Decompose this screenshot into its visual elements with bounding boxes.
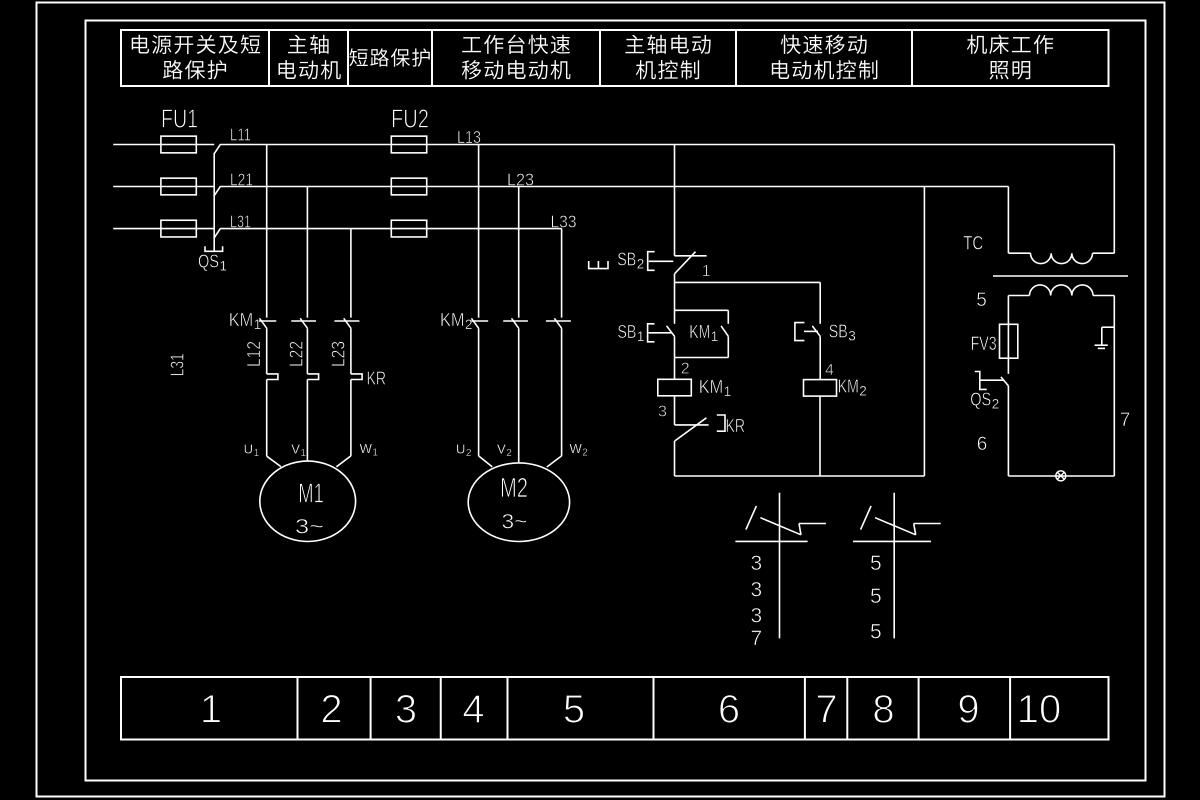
svg-text:2: 2: [320, 688, 342, 732]
svg-text:KR: KR: [726, 415, 746, 436]
svg-text:KM: KM: [699, 376, 724, 397]
svg-text:U: U: [456, 442, 465, 457]
svg-text:2: 2: [506, 448, 512, 459]
svg-text:QS: QS: [198, 251, 219, 272]
svg-text:L23: L23: [329, 341, 349, 367]
svg-text:1: 1: [254, 317, 262, 332]
svg-text:7: 7: [751, 627, 763, 650]
svg-text:U: U: [244, 442, 253, 457]
svg-text:1: 1: [372, 448, 378, 459]
svg-text:V: V: [497, 442, 506, 457]
svg-text:L22: L22: [287, 341, 307, 367]
svg-text:5: 5: [870, 620, 882, 643]
svg-text:KM: KM: [689, 321, 710, 342]
svg-text:SB: SB: [617, 249, 636, 270]
svg-text:6: 6: [977, 434, 988, 455]
svg-text:4: 4: [462, 688, 484, 732]
svg-text:1: 1: [220, 259, 228, 274]
svg-text:L33: L33: [551, 211, 577, 231]
svg-text:2: 2: [637, 257, 645, 272]
svg-text:KM: KM: [838, 376, 859, 397]
svg-text:L23: L23: [507, 169, 534, 189]
svg-text:L13: L13: [457, 127, 481, 147]
svg-text:QS: QS: [970, 389, 991, 410]
svg-text:5: 5: [563, 688, 585, 732]
svg-text:KR: KR: [367, 369, 387, 389]
svg-text:7: 7: [1120, 410, 1131, 431]
svg-text:3: 3: [658, 404, 667, 421]
svg-text:2: 2: [681, 360, 690, 377]
svg-text:3~: 3~: [295, 516, 324, 539]
svg-text:2: 2: [466, 448, 472, 459]
svg-text:2: 2: [465, 317, 473, 332]
svg-text:M2: M2: [500, 472, 528, 503]
svg-text:7: 7: [815, 688, 837, 732]
svg-text:6: 6: [718, 688, 740, 732]
svg-text:FU1: FU1: [161, 104, 198, 134]
svg-text:2: 2: [582, 448, 588, 459]
svg-text:5: 5: [870, 585, 882, 608]
svg-text:2: 2: [992, 397, 1000, 412]
svg-text:FV3: FV3: [971, 334, 997, 355]
svg-text:10: 10: [1017, 688, 1062, 732]
svg-text:1: 1: [254, 448, 260, 459]
svg-text:3: 3: [395, 688, 417, 732]
svg-text:8: 8: [872, 688, 894, 732]
svg-text:1: 1: [637, 329, 645, 344]
svg-text:1: 1: [711, 329, 719, 344]
svg-text:V: V: [291, 442, 300, 457]
svg-text:3~: 3~: [502, 511, 528, 534]
svg-text:1: 1: [724, 384, 732, 399]
svg-text:3: 3: [751, 552, 763, 575]
svg-text:3: 3: [751, 605, 763, 628]
svg-text:3: 3: [751, 579, 763, 602]
svg-text:M1: M1: [298, 477, 324, 508]
svg-text:W: W: [360, 441, 373, 456]
svg-text:5: 5: [870, 552, 882, 575]
svg-text:W: W: [570, 441, 583, 456]
svg-text:2: 2: [859, 384, 867, 399]
svg-text:3: 3: [848, 329, 856, 344]
svg-text:L31: L31: [230, 211, 251, 231]
svg-text:5: 5: [976, 290, 987, 311]
svg-text:TC: TC: [963, 234, 983, 255]
svg-text:9: 9: [957, 688, 979, 732]
svg-text:1: 1: [702, 263, 711, 280]
svg-text:L11: L11: [230, 124, 251, 144]
svg-text:SB: SB: [829, 321, 848, 342]
svg-text:L31: L31: [168, 353, 188, 376]
svg-text:1: 1: [200, 688, 222, 732]
svg-text:4: 4: [825, 362, 834, 379]
svg-text:SB: SB: [617, 321, 636, 342]
svg-text:L21: L21: [230, 169, 253, 189]
svg-text:FU2: FU2: [391, 104, 429, 134]
svg-text:KM: KM: [229, 309, 254, 330]
svg-text:L12: L12: [244, 341, 264, 367]
svg-text:1: 1: [301, 448, 307, 459]
svg-text:KM: KM: [440, 309, 465, 330]
